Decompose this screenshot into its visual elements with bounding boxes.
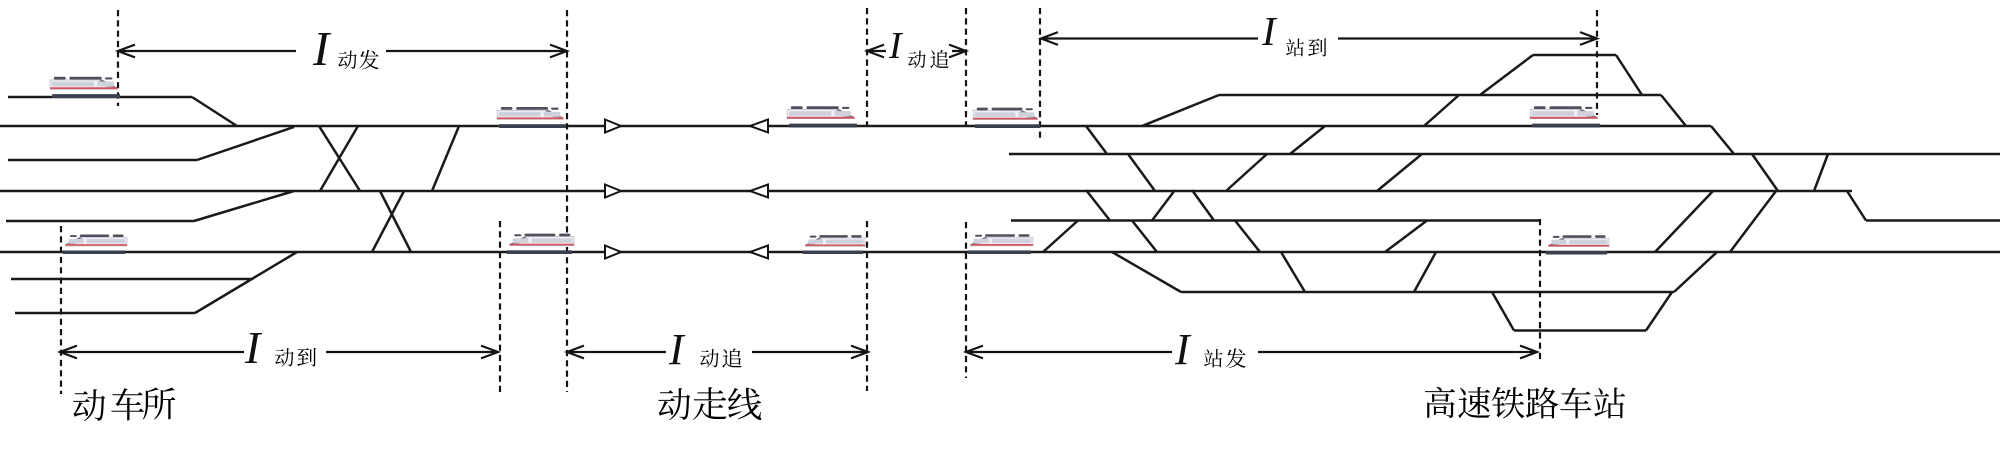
svg-text:I: I — [1174, 325, 1192, 374]
svg-text:I: I — [888, 25, 904, 67]
svg-text:I: I — [668, 325, 686, 374]
svg-text:I: I — [312, 21, 332, 76]
svg-text:I: I — [244, 322, 263, 373]
svg-text:I: I — [1261, 8, 1278, 54]
